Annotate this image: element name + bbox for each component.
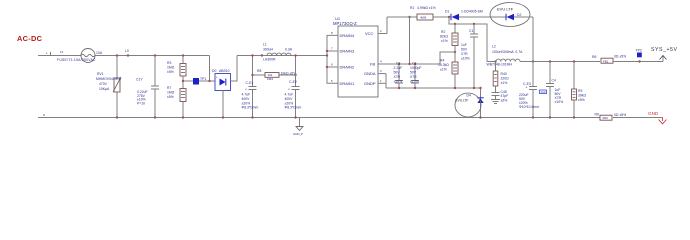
svg-text:SYS_+5V: SYS_+5V bbox=[651, 47, 678, 53]
svg-text:±10%: ±10% bbox=[461, 57, 470, 61]
svg-text:L2: L2 bbox=[492, 45, 496, 49]
svg-text:10KμA: 10KμA bbox=[99, 87, 110, 91]
resistor R5 39k bbox=[572, 62, 587, 119]
pin DRAIN1 bbox=[331, 79, 355, 86]
svg-text:DRAIN2: DRAIN2 bbox=[340, 65, 355, 70]
wire feedback riser bbox=[409, 17, 411, 64]
svg-text:Φ8.3*Dmm: Φ8.3*Dmm bbox=[285, 106, 302, 110]
svg-text:4.7uF: 4.7uF bbox=[285, 93, 294, 97]
svg-text:D0 ABS10: D0 ABS10 bbox=[212, 69, 230, 73]
wire VCC riser bbox=[386, 17, 388, 34]
svg-text:50V: 50V bbox=[410, 71, 417, 75]
resistor R9 0ohm bbox=[595, 113, 627, 121]
resistor R40 bbox=[493, 62, 509, 87]
svg-text:MP173GQ-Z: MP173GQ-Z bbox=[333, 21, 357, 26]
capacitor C1Y bbox=[136, 54, 159, 118]
svg-text:Φ10*10.5mm: Φ10*10.5mm bbox=[519, 105, 539, 109]
svg-text:R1 4.99kΩ ±1%: R1 4.99kΩ ±1% bbox=[410, 6, 436, 10]
pin DRAIN2 bbox=[326, 63, 355, 70]
wire output row bbox=[487, 61, 496, 63]
test point TP2 bbox=[636, 49, 642, 63]
svg-text:C1: C1 bbox=[469, 29, 473, 33]
svg-text:1-DD4005-SM: 1-DD4005-SM bbox=[461, 10, 483, 14]
svg-text:Φ8.3*Dmm: Φ8.3*Dmm bbox=[242, 106, 259, 110]
svg-text:0.3A: 0.3A bbox=[285, 48, 293, 52]
svg-text:R3: R3 bbox=[167, 61, 171, 65]
wire TP1 row bbox=[183, 80, 215, 82]
capacitor C4 bbox=[546, 62, 563, 119]
svg-text:X7R: X7R bbox=[410, 75, 417, 79]
svg-text:D1: D1 bbox=[445, 10, 449, 14]
svg-text:R40: R40 bbox=[501, 72, 507, 76]
svg-text:1000pF: 1000pF bbox=[410, 66, 422, 70]
svg-text:WB704B-101MH: WB704B-101MH bbox=[487, 63, 513, 67]
diode D2 bbox=[506, 13, 521, 20]
pin VCC bbox=[365, 29, 387, 36]
svg-text:2.2uF: 2.2uF bbox=[394, 66, 403, 70]
wire ground leg bbox=[385, 74, 387, 88]
svg-text:470V: 470V bbox=[99, 82, 108, 86]
svg-text:RV1: RV1 bbox=[97, 72, 104, 76]
svg-text:KM4: KM4 bbox=[267, 77, 273, 81]
svg-text:50V: 50V bbox=[461, 48, 468, 52]
diode D4 bbox=[467, 87, 484, 119]
svg-text:1MΩ: 1MΩ bbox=[167, 66, 175, 70]
svg-text:±1%: ±1% bbox=[441, 39, 448, 43]
svg-text:AC-DC: AC-DC bbox=[17, 34, 43, 43]
resistor R6 bbox=[592, 54, 626, 63]
wire L2 to R6 bbox=[520, 61, 600, 63]
wire fuse to bridge corner bbox=[95, 55, 210, 57]
svg-text:±1%: ±1% bbox=[440, 68, 447, 72]
svg-text:0Ω ±5%: 0Ω ±5% bbox=[614, 113, 626, 117]
ground GND_P bbox=[293, 118, 303, 136]
resistor R7 bbox=[167, 86, 186, 119]
svg-text:±10%: ±10% bbox=[555, 100, 564, 104]
svg-text:+: + bbox=[288, 88, 290, 92]
svg-text:C2: C2 bbox=[396, 62, 400, 66]
svg-text:FB1: FB1 bbox=[603, 59, 609, 63]
svg-text:300uH: 300uH bbox=[263, 48, 274, 52]
wire rectified rail bbox=[237, 55, 327, 57]
svg-text:C1Y: C1Y bbox=[136, 78, 143, 82]
capacitor C-E1 bbox=[242, 54, 259, 118]
svg-text:FB: FB bbox=[370, 62, 375, 67]
wire top rail drop to bridge bbox=[209, 56, 211, 82]
capacitor C45 bbox=[492, 86, 509, 103]
svg-text:400V: 400V bbox=[285, 97, 294, 101]
wire R2 top tap bbox=[449, 17, 487, 62]
wire bottom rail bbox=[38, 117, 600, 119]
wire drain bus bbox=[327, 35, 338, 55]
svg-text:FUSE/T3.15A/250VAC: FUSE/T3.15A/250VAC bbox=[57, 58, 96, 62]
svg-text:GND_P: GND_P bbox=[293, 132, 303, 136]
inductor L1 bbox=[261, 43, 293, 62]
svg-text:+: + bbox=[526, 86, 528, 90]
svg-text:R2: R2 bbox=[441, 30, 445, 34]
capacitor C-E2 bbox=[285, 54, 302, 118]
svg-text:±5%: ±5% bbox=[578, 98, 585, 102]
wire R3 to R7 bbox=[182, 76, 184, 89]
svg-text:X7R: X7R bbox=[461, 52, 468, 56]
svg-text:1A0: 1A0 bbox=[541, 90, 546, 94]
svg-text:DRAIN3: DRAIN3 bbox=[340, 49, 355, 54]
svg-text:GNDP: GNDP bbox=[364, 81, 376, 86]
svg-text:D4: D4 bbox=[467, 93, 471, 97]
svg-text:TP2: TP2 bbox=[636, 49, 642, 53]
capacitor C3 bbox=[410, 62, 422, 90]
pin GNDP bbox=[364, 79, 386, 86]
svg-text:X7R: X7R bbox=[394, 75, 401, 79]
svg-text:R6: R6 bbox=[592, 55, 596, 59]
svg-text:TP1: TP1 bbox=[200, 77, 206, 81]
wire VCC top feed bbox=[387, 16, 417, 18]
svg-text:±1%: ±1% bbox=[501, 81, 508, 85]
resistor R3 bbox=[167, 54, 186, 76]
IC U1 MP173GQ-Z bbox=[333, 16, 378, 97]
resistor R4 bbox=[438, 59, 458, 90]
inductor L2 bbox=[487, 45, 524, 67]
svg-text:-: - bbox=[227, 87, 228, 91]
wire R6 to output port bbox=[613, 61, 663, 63]
svg-text:N: N bbox=[43, 113, 45, 117]
pin GNDA bbox=[364, 69, 386, 76]
svg-text:400V: 400V bbox=[242, 97, 251, 101]
wire analog ground rail bbox=[386, 87, 481, 89]
ground GND (red) bbox=[648, 111, 667, 124]
power port SYS_+5V bbox=[651, 47, 678, 62]
svg-text:D2: D2 bbox=[517, 13, 521, 17]
svg-text:L0: L0 bbox=[125, 49, 129, 53]
test point TP1 bbox=[193, 77, 206, 85]
svg-text:C-E2: C-E2 bbox=[289, 80, 297, 84]
svg-text:MHMOV0410KD: MHMOV0410KD bbox=[96, 77, 122, 81]
wire R1 to D1 bbox=[433, 16, 451, 18]
svg-text:C3: C3 bbox=[412, 62, 416, 66]
svg-text:10A: 10A bbox=[96, 51, 103, 55]
svg-text:±5%: ±5% bbox=[501, 99, 508, 103]
svg-text:EVU.LTF: EVU.LTF bbox=[456, 99, 469, 103]
svg-text:1MΩ: 1MΩ bbox=[167, 91, 175, 95]
svg-text:4k99: 4k99 bbox=[420, 16, 427, 20]
svg-text:EVU LTF: EVU LTF bbox=[497, 7, 514, 12]
wire D2 drop to output bbox=[532, 17, 534, 62]
svg-text:50V: 50V bbox=[394, 71, 401, 75]
wire D1 to D2 bbox=[459, 16, 506, 18]
svg-text:14.3kΩ: 14.3kΩ bbox=[438, 63, 449, 67]
wire R9 to ground bbox=[613, 117, 663, 119]
svg-text:DRAIN1: DRAIN1 bbox=[340, 81, 355, 86]
diode D1 bbox=[445, 10, 483, 21]
svg-text:+: + bbox=[245, 88, 247, 92]
capacitor C-E3 bbox=[519, 62, 539, 119]
wire D2 to drop bbox=[514, 16, 533, 18]
svg-text:GND: GND bbox=[648, 111, 659, 116]
pin DRAIN4 bbox=[326, 31, 355, 52]
earth ground under C45 bbox=[491, 100, 500, 104]
svg-text:0Ω ±5%: 0Ω ±5% bbox=[614, 54, 626, 58]
svg-text:±10%: ±10% bbox=[394, 80, 403, 84]
svg-text:VCC: VCC bbox=[365, 31, 374, 36]
varistor RV1 bbox=[96, 54, 122, 118]
svg-text:39kΩ: 39kΩ bbox=[578, 94, 586, 98]
svg-text:R7: R7 bbox=[167, 86, 171, 90]
svg-text:4.7uF: 4.7uF bbox=[242, 93, 251, 97]
capacitor C2 bbox=[394, 62, 404, 90]
svg-text:47pF: 47pF bbox=[501, 94, 509, 98]
svg-text:P=10: P=10 bbox=[137, 101, 145, 105]
fuse F1 bbox=[51, 49, 103, 63]
resistor R1 bbox=[410, 6, 436, 20]
svg-text:C-E1: C-E1 bbox=[246, 81, 254, 85]
annotation ellipse EVU LTF around D2 bbox=[490, 3, 530, 27]
svg-text:R9: R9 bbox=[578, 89, 582, 93]
svg-text:GNDA: GNDA bbox=[364, 71, 376, 76]
capacitor C1 bbox=[461, 24, 478, 89]
svg-text:F1: F1 bbox=[60, 50, 64, 54]
svg-text:220Ω: 220Ω bbox=[501, 77, 510, 81]
svg-text:0R0: 0R0 bbox=[603, 116, 609, 120]
svg-text:+: + bbox=[216, 75, 218, 79]
bridge rectifier D0 ABS10 bbox=[212, 56, 237, 119]
svg-text:1uF: 1uF bbox=[461, 43, 467, 47]
pin DRAIN3 bbox=[331, 47, 355, 54]
svg-text:LH300R: LH300R bbox=[263, 58, 276, 62]
svg-text:±5%: ±5% bbox=[167, 95, 174, 99]
svg-text:L1: L1 bbox=[263, 43, 267, 47]
resistor R2 bbox=[440, 24, 458, 62]
wire L input to fuse bbox=[38, 55, 81, 57]
svg-text:100uH/300mA 0.7A: 100uH/300mA 0.7A bbox=[492, 50, 523, 54]
svg-text:±10%: ±10% bbox=[410, 80, 419, 84]
svg-text:R9: R9 bbox=[595, 113, 599, 117]
svg-text:C4: C4 bbox=[552, 79, 556, 83]
svg-text:10kΩ ±5%: 10kΩ ±5% bbox=[281, 71, 297, 75]
svg-text:DRAIN4: DRAIN4 bbox=[340, 33, 355, 38]
annotation ellipse EVU.LTF around D4 bbox=[455, 93, 481, 117]
pin FB bbox=[370, 60, 386, 67]
svg-text:82kΩ: 82kΩ bbox=[440, 35, 448, 39]
svg-text:R4: R4 bbox=[440, 59, 444, 63]
net label blue tag bbox=[540, 90, 547, 94]
svg-text:R8: R8 bbox=[257, 69, 261, 73]
svg-text:±5%: ±5% bbox=[167, 70, 174, 74]
wire FB run bbox=[386, 52, 455, 64]
resistor R8 bbox=[251, 69, 296, 81]
